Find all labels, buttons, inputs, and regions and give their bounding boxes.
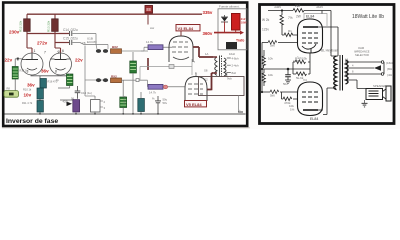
label box V3 EL84 xyxy=(176,25,200,31)
resistor (purple) top xyxy=(148,45,163,50)
capacitor C14 xyxy=(69,31,71,36)
svg-text:R11 4.7k: R11 4.7k xyxy=(22,101,33,105)
svg-text:9vb: 9vb xyxy=(227,77,232,81)
arrow into purple xyxy=(67,102,73,107)
svg-text:(4Ω: (4Ω xyxy=(387,73,393,77)
taps xyxy=(345,62,384,89)
resistor R5 (tan horizontal) xyxy=(111,49,122,54)
svg-text:C14 .022u: C14 .022u xyxy=(63,28,78,32)
svg-text:335v: 335v xyxy=(274,5,281,9)
svg-text:V5 EL84: V5 EL84 xyxy=(186,102,202,107)
svg-text:10k: 10k xyxy=(268,73,273,77)
scan shadow line xyxy=(2,127,250,129)
wire: top B+ bus xyxy=(27,13,202,15)
wire below R2 xyxy=(55,31,61,53)
resistor R2 (maroon) xyxy=(52,19,59,32)
cap 50u xyxy=(157,96,159,114)
svg-text:50u: 50u xyxy=(283,82,288,86)
svg-text:50v: 50v xyxy=(163,101,168,105)
vertical resistor below xyxy=(280,15,283,35)
svg-text:18W: 18W xyxy=(241,21,247,25)
EL84 tube bottom right xyxy=(298,82,323,116)
wire: 272v coupling line xyxy=(55,42,69,44)
grid stub right xyxy=(50,58,70,60)
vertical zigzag resistors xyxy=(262,50,265,68)
wire R6 out xyxy=(122,80,149,87)
svg-text:R17 1k: R17 1k xyxy=(20,69,29,73)
svg-text:EL84: EL84 xyxy=(310,117,318,121)
svg-text:5k6: 5k6 xyxy=(270,94,275,98)
5k6 line xyxy=(262,43,298,93)
svg-text:S8: S8 xyxy=(204,69,208,73)
bottom grid lines xyxy=(262,91,298,93)
svg-text:ECC83: ECC83 xyxy=(87,40,97,44)
B+ bus right xyxy=(268,10,293,12)
EL84 tube top right xyxy=(304,14,327,27)
svg-text:5k6: 5k6 xyxy=(270,44,275,48)
white box component xyxy=(91,100,101,112)
svg-text:14.7k: 14.7k xyxy=(146,40,153,44)
pin ovals lower xyxy=(96,78,101,82)
pin ovals xyxy=(96,49,101,53)
triode left circle xyxy=(21,53,43,75)
teal resistor B xyxy=(37,88,43,99)
svg-text:7: 7 xyxy=(44,51,46,55)
wire R5 to grid xyxy=(122,50,149,52)
svg-text:335v: 335v xyxy=(203,10,213,15)
svg-text:16oh: 16oh xyxy=(229,52,236,56)
input jack (light green) xyxy=(4,91,19,98)
svg-text:R10 1k: R10 1k xyxy=(23,88,32,92)
resistor R1 (maroon) xyxy=(24,19,31,32)
svg-text:272v: 272v xyxy=(37,40,48,45)
cathode bus xyxy=(31,75,70,114)
vertical from R5 node down through green resistor xyxy=(132,52,134,61)
cap 50u xyxy=(287,69,289,80)
svg-text:OHM: OHM xyxy=(358,46,364,50)
svg-text:360v: 360v xyxy=(203,31,213,36)
wire into purple lower-left resistor xyxy=(60,99,73,101)
svg-text:EL84: EL84 xyxy=(306,15,314,19)
wire: 230v coupling line xyxy=(27,33,69,35)
S2 output box xyxy=(199,77,245,96)
svg-text:2-4oh: 2-4oh xyxy=(232,64,240,68)
gray box loop mid xyxy=(140,59,192,80)
svg-text:0A: 0A xyxy=(345,58,348,62)
svg-text:36v: 36v xyxy=(41,69,49,74)
plate wire bottom tube xyxy=(318,88,333,115)
left panel frame xyxy=(3,3,247,127)
grid stub left xyxy=(22,59,26,61)
svg-text:123v: 123v xyxy=(262,28,269,32)
svg-text:14.7k: 14.7k xyxy=(149,91,156,95)
output transformer right xyxy=(334,56,348,90)
green resistor cathode mid xyxy=(67,74,73,86)
svg-text:Fuente aliment.: Fuente aliment. xyxy=(219,4,240,8)
wire to R5 xyxy=(84,44,108,46)
svg-text:4-8oh: 4-8oh xyxy=(232,57,240,61)
node bead and wire to V5 grid xyxy=(163,85,167,89)
svg-text:470/5k: 470/5k xyxy=(293,59,301,63)
drop x282 xyxy=(281,11,283,16)
svg-text:V4: V4 xyxy=(303,78,307,82)
green resistor lower mid xyxy=(120,97,127,108)
svg-text:Trafo: Trafo xyxy=(236,39,244,43)
svg-text:8: 8 xyxy=(55,70,57,74)
teal resistor C xyxy=(37,101,43,113)
svg-text:Inversor de fase: Inversor de fase xyxy=(6,118,58,125)
small node box mid xyxy=(169,65,174,69)
vertical x85 xyxy=(85,46,108,97)
svg-text:8oh: 8oh xyxy=(232,71,237,75)
svg-text:2k2: 2k2 xyxy=(295,4,300,8)
wire: drop from B8 xyxy=(147,13,149,14)
svg-text:R8 10k: R8 10k xyxy=(123,95,127,104)
EL84 tube bottom (left panel) xyxy=(185,77,207,102)
svg-text:V3 EL84: V3 EL84 xyxy=(178,26,194,31)
svg-text:BX2: BX2 xyxy=(112,45,118,49)
svg-text:C16 (1u): C16 (1u) xyxy=(81,91,92,95)
teal resistor mid-bottom xyxy=(138,99,145,112)
svg-text:SPEAKER: SPEAKER xyxy=(373,84,386,88)
svg-text:18Watt Lite IIb: 18Watt Lite IIb xyxy=(352,14,384,20)
svg-text:1: 1 xyxy=(34,49,36,53)
svg-text:10k: 10k xyxy=(268,57,273,61)
svg-text:Y8: Y8 xyxy=(82,41,86,45)
resistor (purple) bottom xyxy=(148,84,163,89)
svg-text:SELECTOR: SELECTOR xyxy=(355,53,369,57)
svg-text:1A: 1A xyxy=(205,52,209,56)
right panel frame xyxy=(260,5,395,124)
title separator line xyxy=(5,113,246,115)
svg-text:88: 88 xyxy=(146,7,151,12)
teal resistor A xyxy=(40,79,46,89)
mid bus xyxy=(262,68,310,70)
ground under cap xyxy=(285,80,291,83)
filter cap (red) xyxy=(232,14,241,31)
svg-text:S2: S2 xyxy=(204,78,208,82)
wire: left plate drop xyxy=(26,14,28,19)
wire: right plate drop xyxy=(54,14,56,19)
svg-text:R1: R1 xyxy=(288,29,292,33)
svg-text:(16Ω: (16Ω xyxy=(386,61,393,65)
svg-text:W 2k: W 2k xyxy=(262,18,270,22)
label box V5 EL84 xyxy=(185,101,207,107)
plate wire to transformer xyxy=(318,27,338,56)
wire below R1 xyxy=(27,31,32,53)
svg-text:42Ω: 42Ω xyxy=(63,100,68,104)
wires tube->transformer xyxy=(193,47,213,57)
purple resistor (lower left) xyxy=(73,100,80,112)
psu transformer black xyxy=(226,42,237,49)
wire jog xyxy=(141,47,144,51)
output transformer (left panel) xyxy=(215,56,231,77)
svg-text:230v: 230v xyxy=(9,30,20,35)
green resistor (cathode top tube) xyxy=(130,61,137,73)
svg-text:R13 22k: R13 22k xyxy=(47,20,51,32)
cap C16 xyxy=(77,86,79,99)
junction dots xyxy=(281,9,283,11)
svg-text:1%: 1% xyxy=(290,108,295,112)
green resistor input xyxy=(12,67,18,80)
svg-text:C15 .022u: C15 .022u xyxy=(63,37,78,41)
ground bus junction dots xyxy=(39,113,159,115)
svg-text:R8: R8 xyxy=(7,87,11,91)
wire C15 out xyxy=(72,43,84,45)
svg-text:343v: 343v xyxy=(316,5,323,9)
svg-text:2W: 2W xyxy=(296,15,301,19)
svg-text:IMPEDANCE: IMPEDANCE xyxy=(354,49,370,53)
EL84 tube top (left panel) xyxy=(169,36,193,62)
svg-text:22v: 22v xyxy=(75,58,83,63)
svg-text:22v: 22v xyxy=(5,58,13,63)
maroon thick vertical mid xyxy=(147,58,149,70)
wire C14 out xyxy=(72,34,96,45)
resistor R6 (tan horizontal) xyxy=(111,78,122,83)
diode xyxy=(221,15,228,22)
svg-text:(8Ω: (8Ω xyxy=(387,67,393,71)
grid1 resistor xyxy=(282,33,298,37)
capacitor C15 xyxy=(69,40,71,45)
fb loop xyxy=(293,54,310,75)
svg-text:BL Heyboer: BL Heyboer xyxy=(321,49,339,53)
triode right circle xyxy=(50,53,72,75)
svg-text:10v: 10v xyxy=(24,93,32,98)
svg-text:6: 6 xyxy=(62,49,64,53)
svg-text:36v: 36v xyxy=(27,83,35,88)
node B8 box xyxy=(145,6,153,14)
svg-text:7%: 7% xyxy=(288,16,293,20)
resistor zigzag R2 xyxy=(293,9,304,13)
ground right xyxy=(364,100,366,103)
